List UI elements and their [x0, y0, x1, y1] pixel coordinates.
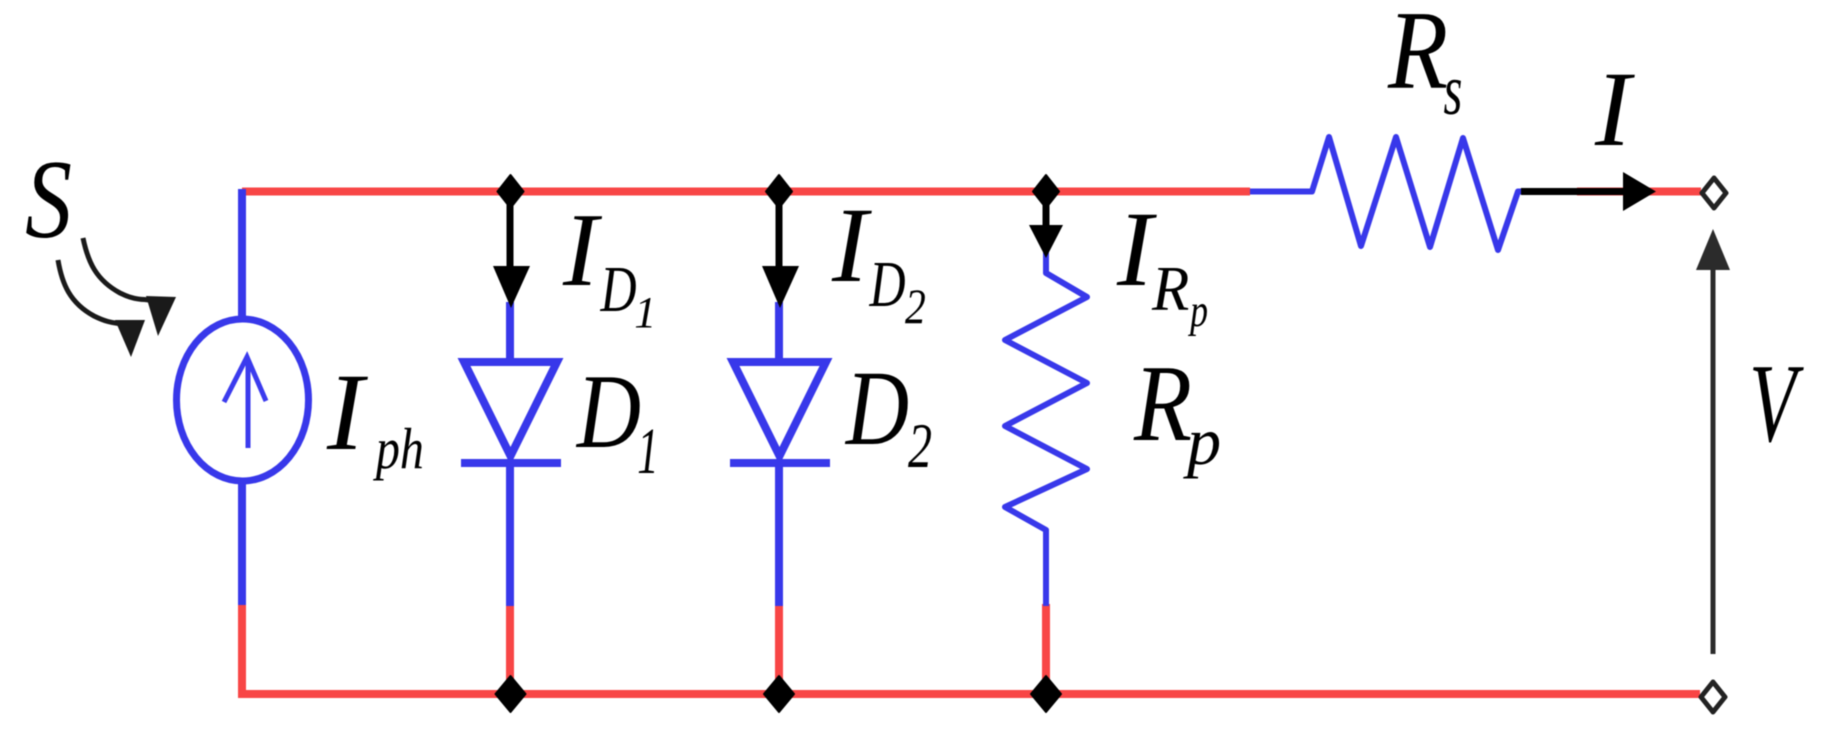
- svg-text:R: R: [1151, 253, 1189, 324]
- svg-text:I: I: [562, 191, 603, 308]
- svg-text:I: I: [326, 351, 368, 473]
- svg-text:I: I: [1594, 51, 1635, 169]
- svg-text:R: R: [1133, 343, 1192, 464]
- svg-text:S: S: [25, 138, 72, 262]
- svg-text:R: R: [1387, 0, 1448, 113]
- svg-text:2: 2: [908, 411, 932, 481]
- svg-text:I: I: [1116, 191, 1157, 309]
- svg-text:p: p: [1188, 285, 1208, 337]
- svg-text:2: 2: [905, 278, 926, 334]
- svg-text:s: s: [1444, 50, 1463, 130]
- svg-text:I: I: [831, 187, 872, 305]
- svg-text:V: V: [1749, 342, 1804, 466]
- svg-text:D: D: [844, 350, 909, 468]
- svg-text:D: D: [575, 353, 641, 470]
- svg-text:1: 1: [634, 288, 656, 337]
- svg-text:D: D: [600, 253, 637, 326]
- svg-text:p: p: [1183, 403, 1221, 479]
- svg-text:1: 1: [637, 415, 658, 488]
- svg-text:ph: ph: [373, 416, 424, 481]
- svg-text:D: D: [869, 248, 906, 321]
